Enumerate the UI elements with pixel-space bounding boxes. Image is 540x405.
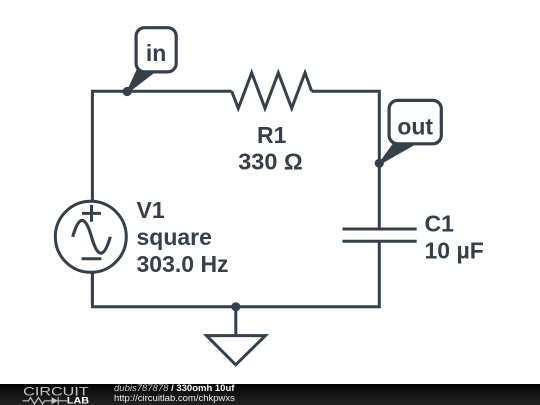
logo diode triangle	[52, 397, 59, 404]
footer bar	[0, 384, 540, 405]
wire capacitor to bottom-right corner	[236, 241, 381, 306]
ground triangle	[207, 336, 266, 365]
svg-text:out: out	[397, 113, 433, 139]
flag in box	[136, 28, 176, 72]
wire resistor to top-right corner	[312, 90, 380, 229]
flag in tail	[127, 69, 154, 93]
svg-text:in: in	[146, 40, 166, 66]
logo resistor-diode squiggle	[23, 397, 68, 404]
capacitor C1	[343, 229, 417, 241]
resistor R1	[232, 73, 312, 109]
ground node dot	[231, 302, 240, 311]
flag out tail	[379, 141, 417, 164]
V1 minus sign	[82, 257, 102, 260]
svg-text:square: square	[137, 224, 212, 250]
wire top horizontal to resistor	[125, 90, 232, 93]
wire left vertical (bottom)	[91, 272, 94, 302]
node in dot	[123, 87, 132, 96]
ground stem	[234, 307, 237, 336]
wire left vertical (top)	[92, 90, 127, 202]
svg-text:V1: V1	[137, 197, 165, 223]
wire bottom horizontal left	[91, 272, 236, 307]
svg-text:R1: R1	[257, 122, 287, 148]
V1 plus sign	[82, 205, 101, 222]
V1 sine wave	[73, 220, 111, 253]
svg-text:330 Ω: 330 Ω	[238, 149, 303, 175]
flag out box	[389, 100, 441, 143]
node out dot	[375, 159, 384, 168]
svg-text:303.0 Hz: 303.0 Hz	[137, 251, 229, 277]
voltage source V1 circle	[55, 201, 126, 272]
svg-text:LAB: LAB	[67, 395, 89, 405]
svg-text:10 µF: 10 µF	[425, 237, 484, 263]
svg-text:C1: C1	[425, 211, 455, 237]
svg-text:http://circuitlab.com/chkpwxs: http://circuitlab.com/chkpwxs	[114, 393, 235, 404]
